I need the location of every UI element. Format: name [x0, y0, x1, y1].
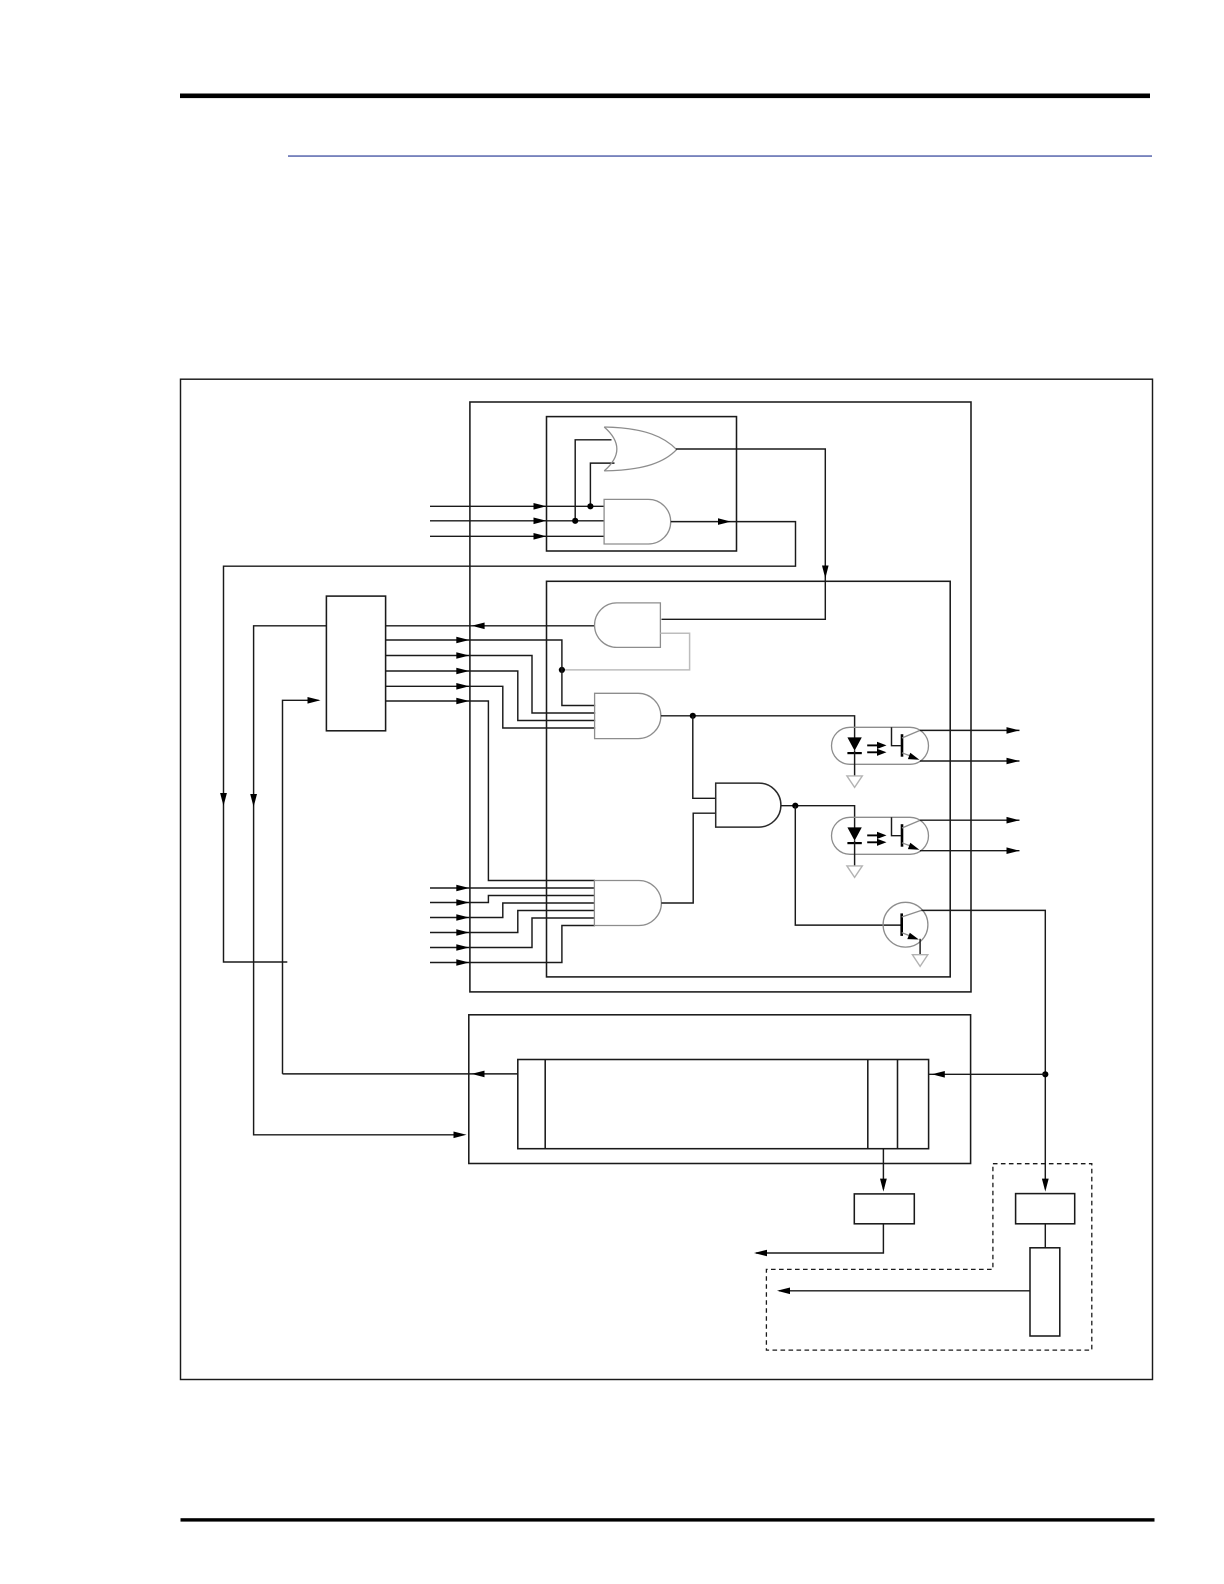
ground below Q3: [912, 955, 927, 967]
phototransistor U1: [892, 727, 921, 759]
cell divider 3: [897, 1060, 899, 1149]
wire into shift register right: [929, 1073, 1046, 1075]
gate logic box A: [547, 417, 737, 551]
wire input bus line 9: [430, 926, 595, 963]
arrow left at shift register box edge: [472, 1071, 485, 1078]
wire OR input A: [575, 440, 611, 521]
ground below D2: [847, 866, 862, 878]
arrow register out 2: [456, 652, 469, 659]
arrow into shift register box left: [454, 1132, 467, 1139]
header divider (blue): [288, 155, 1152, 156]
figure outer frame: [181, 379, 1153, 1379]
optional block dashed outline: [766, 1164, 1091, 1350]
arrow on G2 output: [718, 518, 731, 525]
latch box 1: [854, 1194, 914, 1224]
wire G4 output to optocoupler U1: [661, 716, 855, 738]
arrow prescaler output: [777, 1288, 790, 1295]
wire register out 3: [386, 671, 596, 721]
arrow into box A line 3: [534, 533, 547, 540]
shift register cell box: [518, 1060, 929, 1149]
wire register out 4: [386, 686, 596, 728]
arrow into box B top: [822, 566, 829, 579]
arrow bus line 5: [456, 899, 469, 906]
wire G5 output to G6 input 2: [661, 813, 716, 903]
wire input bus line 7: [430, 911, 595, 933]
AND gate G3 (mirrored): [595, 603, 661, 648]
optocoupler U1 body: [832, 727, 929, 764]
OR gate G1: [604, 427, 676, 471]
wire G3 gray feedback loop: [562, 633, 690, 670]
wire U1 emitter output: [920, 760, 1020, 762]
arrow bus line 9: [456, 959, 469, 966]
latch box 2: [1016, 1194, 1075, 1224]
wire latch 2 to prescaler: [1044, 1224, 1046, 1248]
arrow register out 1: [456, 637, 469, 644]
cell divider 2: [867, 1060, 869, 1149]
junction gray loop on staircase: [559, 667, 565, 673]
wire Q3 emitter to ground: [919, 939, 921, 955]
wire register out 5 to gate G5 input 1: [386, 701, 595, 881]
arrow into latch 1: [880, 1179, 887, 1192]
wire input bus line 4: [430, 887, 595, 889]
arrow into box A line 1: [534, 503, 547, 510]
junction G4 output: [690, 713, 696, 719]
wire OR input B: [590, 463, 614, 506]
page top rule: [180, 94, 1150, 99]
output driver module box: [470, 402, 971, 992]
wire G3 output to register: [386, 625, 595, 627]
LED D2: [847, 827, 861, 865]
wire G2 output feedback to left rail: [224, 522, 796, 962]
wire input bus line 6: [430, 903, 595, 918]
arrow bus line 4: [456, 885, 469, 892]
arrow U1 emitter: [1007, 758, 1020, 765]
prescaler box: [1030, 1248, 1060, 1336]
wire G6 output to optocoupler U2: [781, 806, 855, 828]
wire G4 output branch to G6 input 1: [693, 716, 716, 799]
arrow U2 emitter: [1007, 847, 1020, 854]
wire latch 1 output left: [756, 1224, 883, 1253]
arrow down on left rail: [220, 793, 227, 806]
ground below D1: [847, 776, 862, 788]
wire input bus line 8: [430, 918, 595, 948]
wire register out 1: [386, 640, 596, 706]
arrow register out 5: [456, 698, 469, 705]
junction G6 output: [792, 803, 798, 809]
shift register outer box: [469, 1015, 971, 1164]
wire register write line: [254, 626, 460, 1135]
wire input bus line 5: [430, 896, 595, 903]
wire register out 2: [386, 656, 596, 714]
wire shift register readback: [283, 1073, 518, 1075]
wire input bus line 1: [430, 505, 605, 507]
AND gate G6: [716, 783, 781, 827]
arrow latch 1 output: [754, 1250, 767, 1257]
cell divider 1: [544, 1060, 546, 1149]
AND gate G4: [595, 693, 661, 738]
arrow into register left: [308, 697, 321, 704]
AND gate G5: [594, 881, 661, 926]
arrow U1 collector: [1007, 727, 1020, 734]
wire OR output to gate G3 input 1: [662, 449, 826, 619]
page bottom rule: [181, 1518, 1155, 1521]
gate logic box B: [547, 581, 951, 977]
light arrows U1: [867, 742, 886, 756]
arrow down on write line: [250, 794, 257, 807]
wire G6 output branch to Q3 base: [795, 806, 900, 925]
arrow left into shift register right edge: [932, 1071, 945, 1078]
arrow into latch 2: [1042, 1179, 1049, 1192]
arrow left into register: [472, 623, 485, 630]
wire shift register to latch 1: [882, 1149, 884, 1189]
arrow bus line 6: [456, 914, 469, 921]
arrow U2 collector: [1007, 817, 1020, 824]
light arrows U2: [867, 832, 886, 846]
wire left rail to register input: [283, 700, 319, 1074]
optocoupler U2 body: [832, 817, 929, 854]
arrow bus line 8: [456, 944, 469, 951]
arrow register out 4: [456, 683, 469, 690]
wire Q3 collector to latch 2: [921, 910, 1045, 1189]
LED D1: [847, 737, 861, 775]
wire input bus line 3: [430, 535, 605, 537]
AND gate G2: [604, 499, 671, 544]
wire U1 collector output: [920, 729, 1020, 731]
phototransistor U2: [892, 817, 921, 849]
arrow bus line 7: [456, 929, 469, 936]
control register box: [326, 596, 385, 731]
junction Q3 line to shift register: [1042, 1071, 1048, 1077]
wire U2 collector output: [920, 819, 1020, 821]
junction on bus line 2: [572, 518, 578, 524]
wire U2 emitter output: [920, 850, 1020, 852]
junction on bus line 1: [587, 503, 593, 509]
arrow register out 3: [456, 668, 469, 675]
arrow into box A line 2: [534, 518, 547, 525]
wire prescaler output left: [779, 1290, 1030, 1292]
transistor Q3: [883, 902, 928, 947]
wire input bus line 2: [430, 520, 605, 522]
